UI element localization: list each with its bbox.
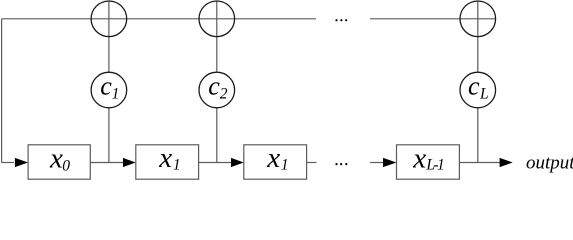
wire feedback left vertical [1, 19, 3, 163]
wire box x1 to next box [199, 162, 232, 164]
wire vertical tap 3 [477, 1, 479, 162]
wire vertical tap 1 [108, 1, 110, 162]
wire output line [459, 162, 500, 164]
ellipsis top [335, 19, 337, 21]
wire top horizontal right segment [370, 18, 496, 20]
arrowhead output [500, 158, 513, 167]
svg-text:2: 2 [220, 86, 228, 103]
arrowhead into last box [383, 158, 397, 167]
svg-text:c: c [100, 72, 112, 101]
arrowhead into box x0 [15, 158, 28, 167]
svg-text:x: x [412, 142, 426, 174]
arrowhead into box x1 [123, 158, 136, 167]
svg-text:1: 1 [281, 156, 289, 173]
xor circle 2 [199, 1, 235, 37]
wire box x0 to box x1 [90, 162, 124, 164]
coefficient circle cL [460, 72, 496, 108]
xor circle 1 [91, 1, 127, 37]
coefficient circle c1 [91, 72, 127, 108]
ellipsis bottom [335, 163, 337, 165]
svg-text:L-1: L-1 [425, 156, 444, 173]
svg-text:1: 1 [112, 86, 120, 103]
wire into last box [370, 162, 384, 164]
svg-text:c: c [208, 72, 220, 101]
svg-text:c: c [468, 72, 480, 101]
svg-text:0: 0 [62, 158, 70, 175]
svg-text:x: x [158, 142, 172, 174]
wire feedback bottom into first box [2, 162, 14, 164]
arrowhead into third box [231, 158, 244, 167]
wire stub after third box [307, 162, 317, 164]
svg-text:L: L [479, 86, 489, 103]
xor circle 3 [460, 1, 496, 37]
register box third (x1) [244, 145, 307, 179]
register box x1 [136, 145, 199, 179]
wire vertical tap 2 [216, 1, 218, 162]
register box xL-1 [397, 145, 460, 179]
svg-text:x: x [266, 142, 280, 174]
coefficient circle c2 [199, 72, 235, 108]
svg-text:1: 1 [173, 156, 181, 173]
wire top horizontal left segment [2, 18, 316, 20]
register box x0 [28, 145, 90, 179]
svg-text:x: x [49, 142, 63, 174]
svg-text:output: output [526, 153, 573, 174]
